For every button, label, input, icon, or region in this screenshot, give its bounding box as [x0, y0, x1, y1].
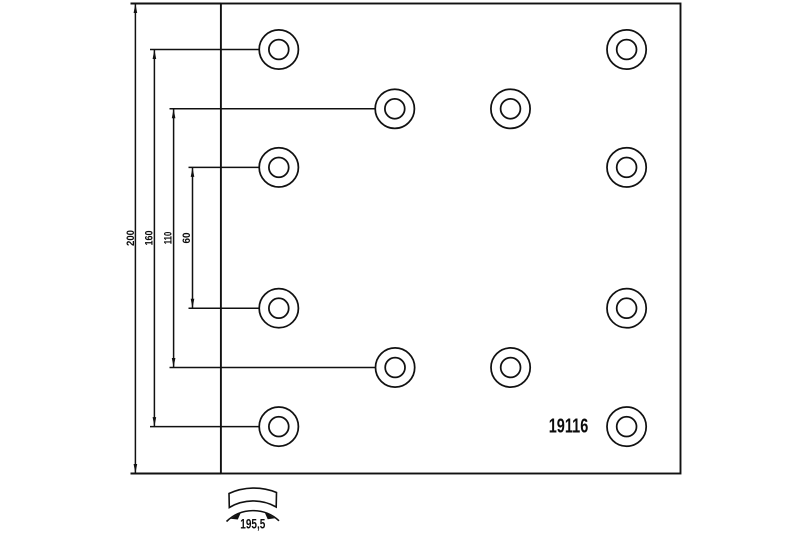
- arc arrow right: [265, 512, 276, 519]
- connector wire row6: [150, 426, 259, 428]
- svg-text:200: 200: [125, 230, 137, 246]
- arrow 60 top: [191, 167, 195, 177]
- arrow 200 top: [134, 4, 138, 14]
- lining outline rectangle: [221, 4, 681, 474]
- rivet hole C2: [607, 148, 646, 187]
- connector wire row4: [189, 307, 260, 309]
- svg-text:19116: 19116: [549, 416, 589, 438]
- bottom edge extension line: [131, 473, 221, 475]
- svg-text:195,5: 195,5: [240, 516, 265, 532]
- rivet hole B1: [375, 89, 414, 128]
- curvature dimension arc 195,5: [227, 511, 280, 522]
- dimension line 60: [192, 167, 194, 308]
- arrow 110 top: [172, 109, 176, 119]
- svg-text:60: 60: [181, 233, 193, 244]
- connector wire row1: [150, 49, 259, 51]
- rivet hole F1: [259, 407, 298, 446]
- arrow 200 bottom: [134, 464, 138, 474]
- rivet hole E1: [376, 348, 415, 387]
- rivet hole B2: [491, 89, 530, 128]
- connector wire row2: [170, 108, 376, 110]
- rivet hole E2: [491, 348, 530, 387]
- arrow 110 bottom: [172, 358, 176, 368]
- svg-text:110: 110: [163, 232, 175, 245]
- svg-text:160: 160: [144, 231, 156, 246]
- arrow 160 bottom: [153, 417, 157, 427]
- rivet hole D1: [259, 289, 298, 328]
- dimension line 110: [173, 109, 175, 368]
- arrow 60 bottom: [191, 299, 195, 309]
- top edge extension line: [131, 3, 221, 5]
- dimension line 200: [134, 4, 136, 474]
- arrow 160 top: [153, 50, 157, 60]
- connector wire row5: [170, 367, 376, 369]
- arc arrow left: [231, 512, 242, 519]
- rivet hole F2: [607, 407, 646, 446]
- curvature band symbol: [229, 488, 277, 507]
- rivet hole C1: [259, 148, 298, 187]
- rivet hole A2: [607, 30, 646, 69]
- connector wire row3: [189, 166, 260, 168]
- dimension line 160: [153, 50, 155, 427]
- rivet hole D2: [607, 289, 646, 328]
- rivet hole A1: [259, 30, 298, 69]
